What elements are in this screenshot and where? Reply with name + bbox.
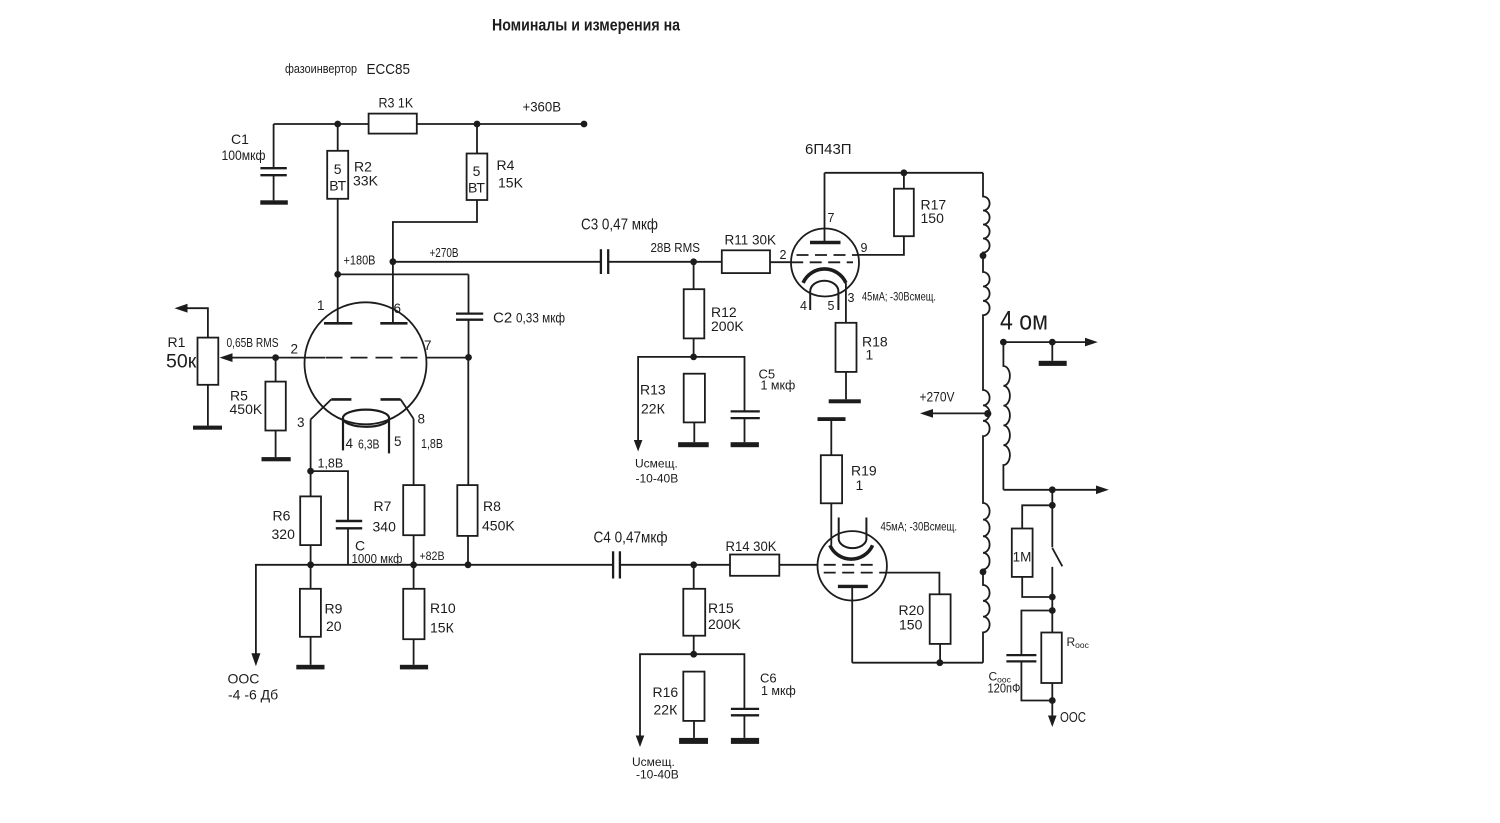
wire R14 to lower tube grid bbox=[779, 564, 818, 566]
node R17 top bbox=[901, 169, 908, 176]
wire secondary top output with arrow bbox=[1003, 341, 1093, 343]
svg-text:R16: R16 bbox=[653, 684, 679, 700]
ground inverted above R19 bbox=[818, 417, 846, 421]
resistor R12 200K bbox=[693, 262, 695, 289]
cathode arc V2 bbox=[830, 545, 873, 559]
node OOC bbox=[1049, 697, 1056, 704]
svg-text:28В RMS: 28В RMS bbox=[651, 241, 701, 255]
svg-text:6П43П: 6П43П bbox=[805, 141, 852, 158]
cathode pin 3 bbox=[331, 398, 351, 401]
wire OOC branch with arrow bbox=[256, 565, 311, 656]
node C2/grid7 junction bbox=[465, 354, 472, 361]
resistor R7 340 bbox=[403, 485, 424, 535]
node 28B RMS junction bbox=[690, 258, 697, 265]
svg-text:+360В: +360В bbox=[523, 99, 562, 115]
svg-text:7: 7 bbox=[828, 211, 835, 225]
resistor R2 33K (5 BT) bbox=[337, 124, 339, 151]
ground R10 bbox=[400, 665, 428, 670]
wire Rooc to OOC arrow bbox=[1051, 683, 1053, 721]
svg-text:0,33 мкф: 0,33 мкф bbox=[516, 310, 565, 326]
transformer secondary winding bbox=[1003, 342, 1010, 490]
resistor R18 1 bbox=[836, 323, 857, 372]
label tube type ECC85 bbox=[367, 61, 411, 78]
wire bias arrow branch upper bbox=[638, 357, 694, 445]
svg-text:7: 7 bbox=[424, 338, 432, 353]
node R20 bottom bbox=[936, 659, 943, 666]
wire C4 to R14 bbox=[620, 564, 730, 566]
svg-text:5: 5 bbox=[828, 299, 835, 313]
resistor Rooc bbox=[1041, 633, 1062, 684]
title bbox=[492, 16, 680, 35]
svg-text:R15: R15 bbox=[708, 600, 734, 616]
svg-text:6,3В: 6,3В bbox=[358, 438, 380, 452]
wire signal row to C4 bbox=[311, 564, 613, 566]
grid g1 dashed row pin 2 bbox=[791, 261, 853, 263]
node primary tap upper bbox=[980, 252, 987, 259]
wire R2 to +180B node bbox=[337, 199, 339, 275]
grid wire row (solid right) bbox=[427, 357, 469, 359]
svg-text:C4 0,47мкф: C4 0,47мкф bbox=[594, 530, 668, 547]
svg-text:R13: R13 bbox=[640, 382, 666, 398]
svg-text:1M: 1M bbox=[1013, 550, 1032, 565]
svg-text:R10: R10 bbox=[430, 600, 456, 616]
node 1,8B cathode junction bbox=[307, 468, 314, 475]
svg-text:R8: R8 bbox=[483, 498, 501, 514]
wire top +360V bus bbox=[274, 123, 584, 125]
capacitor C6 1 мкф bbox=[694, 654, 745, 708]
svg-text:6: 6 bbox=[394, 301, 402, 316]
resistor R9 20 bbox=[310, 565, 312, 589]
svg-text:R14 30K: R14 30K bbox=[726, 538, 778, 554]
resistor R11 30K bbox=[722, 250, 770, 273]
resistor R17 150 bbox=[903, 173, 905, 189]
grid wire row (solid left) bbox=[229, 357, 325, 359]
ground C6 bbox=[731, 738, 759, 744]
resistor R3 1K bbox=[369, 114, 417, 134]
ground stub on 4 ом row bbox=[1051, 342, 1053, 361]
resistor R19 1 bbox=[830, 421, 832, 455]
capacitor C3 0,47 мкф bbox=[600, 249, 602, 274]
ground R18 bbox=[829, 399, 861, 403]
svg-text:3: 3 bbox=[297, 415, 305, 430]
svg-text:ООС: ООС bbox=[228, 671, 260, 687]
svg-text:33K: 33K bbox=[353, 173, 379, 189]
svg-text:0,65В RMS: 0,65В RMS bbox=[227, 336, 279, 350]
svg-text:5: 5 bbox=[394, 434, 402, 449]
svg-text:8: 8 bbox=[418, 412, 426, 427]
svg-text:-4 -6 Дб: -4 -6 Дб bbox=[228, 687, 278, 703]
ground R9 bbox=[296, 665, 324, 670]
wire top bus plate to transformer bbox=[825, 172, 984, 174]
node primary +270V center tap bbox=[984, 410, 991, 417]
capacitor C1 100мкф bbox=[273, 124, 275, 168]
svg-text:R4: R4 bbox=[497, 157, 515, 173]
svg-text:C1: C1 bbox=[231, 131, 249, 147]
node R15/R16 bbox=[690, 651, 697, 658]
svg-text:R11 30K: R11 30K bbox=[725, 233, 777, 248]
svg-text:200K: 200K bbox=[711, 318, 744, 334]
ground C1 bbox=[260, 200, 288, 204]
wire plate lead pin 7 bbox=[824, 173, 826, 243]
svg-text:450K: 450K bbox=[482, 518, 515, 534]
node secondary top bbox=[1000, 339, 1007, 346]
wire C3 to R11 bbox=[608, 261, 722, 263]
resistor R20 150 bbox=[930, 594, 951, 644]
wire pin1 plate lead bbox=[337, 274, 339, 323]
resistor R14 30K bbox=[730, 555, 779, 576]
resistor R15 200K bbox=[693, 565, 695, 589]
pin labels V1 bbox=[780, 211, 868, 313]
svg-text:С3 0,47 мкф: С3 0,47 мкф bbox=[581, 217, 658, 234]
svg-text:Uсмещ.: Uсмещ. bbox=[635, 457, 678, 471]
svg-text:R3 1K: R3 1K bbox=[379, 96, 414, 111]
label tube 6П43П bbox=[805, 141, 852, 158]
svg-text:15K: 15K bbox=[498, 175, 524, 191]
grid g2 dashed row V2 bbox=[824, 572, 880, 574]
resistor R8 450K bbox=[457, 485, 477, 536]
svg-text:45мА; -30Всмещ.: 45мА; -30Всмещ. bbox=[862, 290, 936, 304]
cathode pin 8 bbox=[381, 398, 401, 401]
tube V2 6П43П envelope bbox=[818, 531, 887, 600]
node C4/R15 junction bbox=[690, 561, 697, 568]
svg-text:9: 9 bbox=[861, 241, 868, 255]
grid dashed line bbox=[326, 357, 427, 359]
svg-text:120пФ: 120пФ bbox=[988, 682, 1021, 696]
svg-text:R7: R7 bbox=[374, 498, 392, 514]
wire plate lead V2 bbox=[851, 586, 853, 662]
node ground stub top row bbox=[1049, 339, 1056, 346]
svg-text:150: 150 bbox=[921, 210, 945, 226]
capacitor C4 0,47мкф bbox=[612, 551, 614, 578]
capacitor Cooc 120пФ bbox=[1021, 611, 1052, 655]
tube V1 6П43П envelope bbox=[791, 229, 859, 297]
svg-text:+270В: +270В bbox=[430, 246, 459, 260]
wire junction to R8 bbox=[467, 357, 469, 485]
svg-text:200K: 200K bbox=[708, 616, 741, 632]
svg-text:3: 3 bbox=[848, 291, 855, 305]
grid g2 dashed row pin 9 bbox=[797, 254, 859, 256]
ground R5 bbox=[262, 457, 291, 461]
svg-text:Rоос: Rоос bbox=[1067, 635, 1090, 650]
resistor R13 22K bbox=[684, 374, 705, 423]
svg-text:15К: 15К bbox=[430, 620, 455, 636]
svg-text:R6: R6 bbox=[273, 508, 291, 524]
wire +270B row to C3 bbox=[393, 261, 601, 263]
svg-text:Номиналы и измерения на: Номиналы и измерения на bbox=[492, 16, 680, 35]
ground R16 bbox=[679, 738, 708, 744]
svg-text:4 ом: 4 ом bbox=[1000, 306, 1048, 336]
svg-text:100мкф: 100мкф bbox=[222, 147, 266, 163]
heater ECC85 pins 4 5 bbox=[343, 410, 389, 427]
label 4 ом bbox=[1000, 306, 1048, 336]
node grid/R5 junction bbox=[272, 354, 279, 361]
capacitor C2 0,33 мкф bbox=[468, 274, 470, 313]
svg-text:5: 5 bbox=[473, 163, 481, 179]
resistor R10 15K bbox=[413, 565, 415, 589]
svg-text:ВТ: ВТ bbox=[329, 178, 346, 194]
svg-text:фазоинвертор: фазоинвертор bbox=[285, 61, 357, 76]
node junction R4/top bus bbox=[474, 121, 481, 128]
plate bar V1 bbox=[810, 241, 841, 244]
svg-text:22К: 22К bbox=[641, 401, 666, 417]
grid g1 dashed row V2 bbox=[824, 564, 878, 566]
wire bottom row to transformer bbox=[852, 662, 983, 664]
resistor 1M bbox=[1022, 505, 1052, 528]
svg-text:50к: 50к bbox=[166, 351, 197, 373]
node +360B terminal bbox=[581, 121, 588, 128]
svg-text:+82В: +82В bbox=[420, 549, 445, 563]
svg-text:ВТ: ВТ bbox=[468, 180, 485, 196]
node switch bottom bbox=[1049, 594, 1056, 601]
node primary tap lower bbox=[980, 569, 987, 576]
node R12/R13 bbox=[690, 354, 697, 361]
svg-text:22К: 22К bbox=[654, 702, 679, 718]
svg-text:1,8В: 1,8В bbox=[421, 437, 443, 451]
ground C5 bbox=[731, 442, 759, 447]
svg-text:+270V: +270V bbox=[920, 389, 956, 405]
plate bar pin 1 bbox=[324, 322, 352, 325]
plate bar pin 6 bbox=[380, 322, 407, 325]
node +270B bbox=[390, 258, 397, 265]
svg-text:1: 1 bbox=[856, 477, 864, 493]
svg-text:C2: C2 bbox=[493, 310, 512, 327]
svg-text:-10-40В: -10-40В bbox=[636, 472, 679, 486]
capacitor C 1000мкф bbox=[311, 471, 348, 520]
wire secondary bottom output with arrow bbox=[1003, 489, 1104, 491]
svg-text:4: 4 bbox=[800, 299, 807, 313]
wire R4 jog down to +270B node bbox=[393, 200, 477, 323]
svg-text:45мА; -30Всмещ.: 45мА; -30Всмещ. bbox=[881, 520, 958, 534]
tube ECC85 envelope bbox=[305, 302, 427, 424]
label 45мА -30Всмещ lower bbox=[881, 520, 958, 534]
label 45мА -30Всмещ upper bbox=[862, 290, 936, 304]
svg-text:20: 20 bbox=[326, 618, 342, 634]
svg-text:1 мкф: 1 мкф bbox=[761, 379, 796, 393]
resistor R6 320 bbox=[310, 471, 312, 496]
wire switch lower stub bbox=[1051, 567, 1053, 633]
svg-text:150: 150 bbox=[899, 617, 923, 633]
svg-text:OOC: OOC bbox=[1060, 709, 1086, 726]
node Cooc top bbox=[1049, 607, 1056, 614]
node R8 bottom bbox=[465, 561, 472, 568]
capacitor C5 1 мкф bbox=[694, 357, 745, 411]
svg-text:1,8В: 1,8В bbox=[318, 457, 344, 471]
svg-text:+180В: +180В bbox=[344, 254, 376, 268]
svg-text:ECC85: ECC85 bbox=[367, 61, 411, 78]
wire feedback column upper bbox=[1051, 490, 1053, 548]
wire bias arrow branch lower bbox=[640, 654, 694, 740]
svg-text:-10-40В: -10-40В bbox=[636, 768, 679, 782]
node junction R2/top bus bbox=[334, 121, 341, 128]
svg-text:1: 1 bbox=[866, 347, 874, 363]
svg-text:R9: R9 bbox=[325, 601, 343, 617]
heater V1 bbox=[810, 281, 838, 310]
wire +270V arrow bbox=[926, 412, 988, 414]
svg-text:R1: R1 bbox=[168, 334, 186, 350]
label фазоинвертор bbox=[285, 61, 357, 76]
plate bar V2 bbox=[838, 585, 868, 588]
resistor R16 22K bbox=[683, 672, 704, 721]
heater V2 bbox=[839, 518, 867, 549]
svg-text:2: 2 bbox=[291, 342, 299, 357]
svg-text:320: 320 bbox=[272, 526, 296, 542]
resistor R5 450K bbox=[275, 358, 277, 382]
node switch top bbox=[1049, 502, 1056, 509]
wire +180B row to C2 bbox=[338, 273, 469, 275]
resistor R4 15K (5 BT) bbox=[476, 124, 478, 154]
switch blade bbox=[1052, 548, 1062, 566]
transformer primary winding bbox=[983, 173, 990, 663]
wire cathode pin 3 to R18 bbox=[845, 283, 847, 323]
node feedback top bbox=[1049, 486, 1056, 493]
node R6/R9 bbox=[307, 561, 314, 568]
svg-text:450K: 450K bbox=[230, 401, 263, 417]
wire R11 to grid pin 2 bbox=[770, 261, 791, 263]
svg-text:340: 340 bbox=[373, 519, 397, 535]
ground R13 bbox=[678, 442, 709, 447]
svg-text:4: 4 bbox=[346, 436, 354, 451]
ground R1 bbox=[193, 426, 222, 430]
node +82B bbox=[410, 561, 417, 568]
potentiometer R1 50k bbox=[220, 353, 233, 362]
svg-text:2: 2 bbox=[780, 248, 787, 262]
pin labels 1 6 2 7 bbox=[291, 298, 432, 357]
svg-text:1: 1 bbox=[317, 298, 325, 313]
wire screen pin9 V2 to R20 bbox=[880, 573, 939, 595]
node +180B bbox=[334, 271, 341, 278]
svg-text:5: 5 bbox=[334, 161, 342, 177]
svg-text:1 мкф: 1 мкф bbox=[761, 684, 796, 698]
cathode arc V1 bbox=[803, 269, 846, 283]
